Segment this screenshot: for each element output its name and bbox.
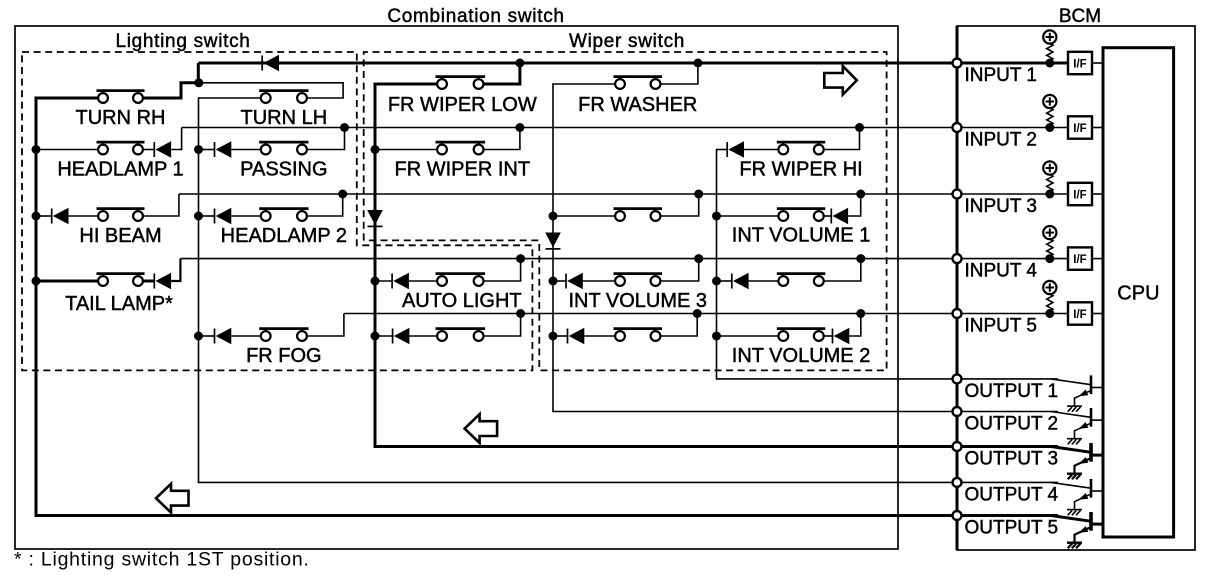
svg-text:I/F: I/F bbox=[1073, 123, 1086, 135]
svg-text:AUTO LIGHT: AUTO LIGHT bbox=[402, 290, 522, 312]
wire FR WASHER left to vertical V553 bbox=[553, 83, 615, 85]
node HI BEAM on left bus bbox=[32, 212, 41, 221]
svg-text:HI BEAM: HI BEAM bbox=[79, 225, 161, 247]
switch TAIL LAMP bbox=[97, 274, 145, 286]
node PASSING to INPUT 2 bbox=[340, 123, 349, 132]
switch HEADLAMP 1 bbox=[97, 142, 145, 154]
power pull-up for INPUT 5 bbox=[1043, 281, 1056, 311]
wire FR FOG row bbox=[199, 335, 215, 337]
diode down on V375 vertical bbox=[367, 210, 383, 226]
wire PASSING row bbox=[199, 149, 215, 151]
node FR WIPER INT to INPUT 2 bbox=[515, 123, 524, 132]
wire HEADLAMP 2 riser to INPUT 3 bbox=[307, 194, 343, 216]
node INT VOLUME 1 on V716 bbox=[712, 212, 721, 221]
wire vertical from FR WASHER down to OUTPUT 2 bbox=[552, 83, 554, 411]
diode row-9 M1 switch bbox=[393, 328, 410, 344]
svg-text:FR WIPER INT: FR WIPER INT bbox=[395, 159, 531, 181]
diode row-9 M2 switch bbox=[568, 328, 585, 344]
switch TURN RH bbox=[97, 91, 145, 103]
switch AUTO LIGHT bbox=[436, 274, 486, 286]
wire FR FOG riser to INPUT 5 bbox=[307, 314, 344, 337]
svg-text:OUTPUT 3: OUTPUT 3 bbox=[965, 449, 1059, 470]
I/F box for INPUT 2 bbox=[1068, 116, 1103, 138]
node TAIL LAMP on left bus bbox=[32, 277, 41, 286]
switch INT VOLUME 3 bbox=[614, 274, 663, 286]
wire HEADLAMP 2 row bbox=[199, 215, 215, 217]
svg-text:I/F: I/F bbox=[1073, 254, 1086, 266]
svg-text:CPU: CPU bbox=[1117, 283, 1159, 305]
wire INPUT 1 top bus (thick) bbox=[198, 62, 1068, 65]
node right row-7 switch on V716 bbox=[712, 277, 721, 286]
svg-text:I/F: I/F bbox=[1073, 59, 1086, 71]
transistor Q2 for OUTPUT 2 bbox=[1051, 408, 1103, 438]
flow arrow right on INPUT 1 bbox=[824, 66, 857, 95]
switch INT VOLUME 2 bbox=[777, 329, 826, 341]
connector OUTPUT 4 at BCM edge bbox=[953, 478, 962, 487]
wire FR WIPER INT row bbox=[375, 149, 437, 151]
connector OUTPUT 5 at BCM edge bbox=[953, 511, 962, 520]
node INT VOLUME 2 to INPUT 5 bbox=[856, 309, 865, 318]
wire INT VOLUME 1 riser to INPUT 3 bbox=[848, 194, 861, 216]
switch FR WIPER INT bbox=[436, 142, 486, 154]
transistor Q5 for OUTPUT 5 bbox=[1051, 512, 1103, 542]
switch PASSING bbox=[259, 142, 308, 154]
node row-9 M2 switch on V553 bbox=[549, 332, 558, 341]
Combination switch box bbox=[15, 26, 898, 549]
wire AUTO LIGHT riser to INPUT 4 bbox=[484, 259, 521, 281]
wire FR WIPER INT riser to INPUT 2 bbox=[484, 128, 520, 150]
Wiper switch dashed boundary bbox=[364, 52, 887, 370]
svg-text:PASSING: PASSING bbox=[240, 159, 327, 181]
wire FR WIPER HI left corner down V716 bbox=[717, 149, 728, 151]
transistor Q1 for OUTPUT 1 bbox=[1051, 375, 1103, 405]
svg-text:INPUT 4: INPUT 4 bbox=[965, 261, 1038, 282]
wire middle row-5 switch bbox=[553, 215, 615, 217]
svg-text:Combination switch: Combination switch bbox=[387, 6, 564, 27]
diode INT VOLUME 1 bbox=[831, 208, 848, 224]
connector OUTPUT 2 at BCM edge bbox=[953, 407, 962, 416]
wire left bus vertical (thick) bbox=[35, 97, 38, 516]
wire OUTPUT 4 line from node V198 bbox=[198, 481, 1058, 483]
wire TURN RH thick path bbox=[36, 97, 98, 100]
switch FR WASHER bbox=[614, 77, 663, 89]
svg-text:INPUT 1: INPUT 1 bbox=[965, 65, 1038, 86]
node AUTO LIGHT on V375 bbox=[371, 277, 380, 286]
wire INT VOLUME 1 row bbox=[717, 215, 779, 217]
wire vertical from TURN LH feeding PASSING/HEADLAMP2/FR FOG down to OUTPUT 4 bbox=[198, 97, 200, 482]
flow arrow left above OUTPUT 3 bbox=[465, 414, 498, 443]
power pull-up for INPUT 3 bbox=[1043, 161, 1056, 191]
wire TURN LH top link bbox=[199, 83, 343, 98]
power pull-up for INPUT 1 bbox=[1043, 30, 1056, 60]
CPU box U1 bbox=[1103, 48, 1174, 537]
diode on INPUT 1 bus bbox=[262, 55, 279, 71]
power pull-up for INPUT 2 bbox=[1043, 95, 1056, 125]
wire HI BEAM riser to INPUT 3 bbox=[143, 194, 179, 216]
node FR FOG on V198 bbox=[194, 332, 203, 341]
diode AUTO LIGHT bbox=[392, 273, 409, 289]
diode HEADLAMP 2 bbox=[215, 208, 232, 224]
node right row-7 switch to INPUT 4 bbox=[856, 254, 865, 263]
transistor Q4 for OUTPUT 4 bbox=[1051, 479, 1103, 509]
wire row-9 M1 switch row bbox=[375, 335, 393, 337]
diode HI BEAM bbox=[52, 208, 69, 224]
svg-text:Lighting switch: Lighting switch bbox=[115, 31, 250, 52]
wire TAIL LAMP riser to INPUT 4 (thick) bbox=[171, 259, 180, 281]
wire row-9 M2 riser to INPUT 5 bbox=[661, 314, 698, 337]
svg-text:INT VOLUME 3: INT VOLUME 3 bbox=[568, 290, 707, 312]
diode TAIL LAMP bbox=[154, 273, 171, 289]
svg-text:Wiper switch: Wiper switch bbox=[569, 31, 685, 52]
connector OUTPUT 1 at BCM edge bbox=[953, 374, 962, 383]
I/F box for INPUT 3 bbox=[1068, 183, 1103, 205]
svg-text:OUTPUT 4: OUTPUT 4 bbox=[965, 484, 1059, 505]
diode down on V553 vertical bbox=[545, 233, 561, 249]
node row-9 M2 switch to INPUT 5 bbox=[693, 309, 702, 318]
wire PASSING riser to INPUT 2 bbox=[307, 128, 344, 150]
wire FR WASHER right riser to INPUT 1 bbox=[661, 63, 698, 84]
node AUTO LIGHT to INPUT 4 bbox=[516, 254, 525, 263]
node INT VOLUME 3 on V553 bbox=[549, 277, 558, 286]
node INT VOLUME 2 on V716 bbox=[712, 332, 721, 341]
svg-text:I/F: I/F bbox=[1073, 190, 1086, 202]
wire HEADLAMP 1 row bbox=[36, 149, 98, 151]
diode INT VOLUME 2 bbox=[833, 328, 850, 344]
wire INT VOLUME 2 row bbox=[717, 335, 779, 337]
svg-text:OUTPUT 5: OUTPUT 5 bbox=[965, 518, 1059, 539]
wire OUTPUT 1 line from node V716 bbox=[716, 378, 1058, 380]
wire right row-7 switch row bbox=[717, 280, 732, 282]
svg-text:FR WIPER HI: FR WIPER HI bbox=[739, 159, 862, 181]
connector INPUT 5 at BCM edge bbox=[953, 309, 962, 318]
connector INPUT 2 at BCM edge bbox=[953, 123, 962, 132]
wire FR WIPER HI riser to INPUT 2 bbox=[824, 128, 860, 150]
wire middle row-5 switch riser to INPUT 3 bbox=[661, 194, 699, 216]
diode right row-7 switch bbox=[732, 273, 749, 289]
wire row-9 M1 riser to INPUT 5 bbox=[484, 314, 521, 337]
switch wiper volume (unlabeled, row 5) bbox=[614, 209, 663, 221]
svg-text:* : Lighting switch 1ST positi: * : Lighting switch 1ST position. bbox=[14, 549, 310, 571]
switch wiper volume (unlabeled, row 9) bbox=[614, 329, 663, 341]
node PASSING on V198 bbox=[194, 145, 203, 154]
svg-text:OUTPUT 1: OUTPUT 1 bbox=[965, 381, 1059, 402]
diode FR WIPER HI bbox=[727, 141, 744, 157]
node middle switch on V553 bbox=[549, 212, 558, 221]
wire TAIL LAMP row (thick) bbox=[36, 280, 98, 283]
svg-text:FR FOG: FR FOG bbox=[246, 345, 322, 367]
svg-text:BCM: BCM bbox=[1059, 6, 1101, 27]
diode PASSING bbox=[215, 141, 232, 157]
switch HEADLAMP 2 bbox=[259, 209, 308, 221]
Lighting switch dashed boundary bbox=[22, 52, 532, 370]
switch FR WIPER HI bbox=[777, 142, 826, 154]
svg-text:TAIL LAMP*: TAIL LAMP* bbox=[65, 293, 173, 315]
diode HEADLAMP 1 bbox=[154, 141, 171, 157]
wire right row-7 riser to INPUT 4 bbox=[824, 259, 861, 281]
wire INT VOLUME 3 riser to INPUT 4 bbox=[661, 259, 699, 281]
node INT VOLUME 3 to INPUT 4 bbox=[694, 254, 703, 263]
connector INPUT 1 at BCM edge bbox=[953, 59, 962, 68]
node HEADLAMP 2 on V198 bbox=[194, 212, 203, 221]
switch auto light (unlabeled, row 9) bbox=[436, 329, 486, 341]
wire OUTPUT 5 line (thick) from left bus bbox=[35, 514, 1059, 517]
wire INPUT 3 line bbox=[179, 193, 1068, 195]
svg-text:INPUT 3: INPUT 3 bbox=[965, 196, 1038, 217]
node FR WIPER HI to INPUT 2 bbox=[855, 123, 864, 132]
BCM connector edge (thick left side) bbox=[956, 26, 959, 550]
switch HI BEAM bbox=[97, 209, 145, 221]
svg-text:FR WIPER LOW: FR WIPER LOW bbox=[388, 94, 537, 116]
I/F box for INPUT 5 bbox=[1068, 302, 1103, 324]
transistor Q3 for OUTPUT 3 bbox=[1051, 443, 1103, 473]
svg-text:INPUT 5: INPUT 5 bbox=[965, 316, 1038, 337]
svg-text:I/F: I/F bbox=[1073, 309, 1086, 321]
node row-9 M1 switch to INPUT 5 bbox=[516, 309, 525, 318]
svg-text:TURN LH: TURN LH bbox=[241, 107, 328, 129]
wire OUTPUT 2 line from node V553 bbox=[552, 411, 1058, 413]
svg-text:TURN RH: TURN RH bbox=[76, 107, 166, 129]
wire row-9 M2 switch row bbox=[553, 335, 568, 337]
wire OUTPUT 3 line (thick) from node V375 bbox=[374, 445, 1059, 448]
node FR WIPER INT on V375 bbox=[371, 145, 380, 154]
node middle row-5 switch to INPUT 3 bbox=[694, 190, 703, 199]
wire INT VOLUME 2 riser to INPUT 5 bbox=[849, 314, 861, 337]
node TURN RH / TURN LH junction bbox=[194, 78, 203, 87]
BCM box bbox=[957, 26, 1195, 550]
switch INT VOLUME 1 bbox=[777, 209, 826, 221]
flow arrow left above OUTPUT 5 bbox=[156, 484, 189, 513]
wire vertical from FR WIPER HI down to OUTPUT 1 bbox=[716, 149, 718, 379]
wire INT VOLUME 3 row bbox=[553, 280, 566, 282]
node INT VOLUME 1 to INPUT 3 bbox=[856, 190, 865, 199]
I/F box for INPUT 1 bbox=[1068, 52, 1103, 74]
node row-9 M1 switch on V375 bbox=[371, 332, 380, 341]
wire HEADLAMP 1 riser to INPUT 2 bbox=[171, 128, 182, 150]
switch TURN LH bbox=[259, 91, 308, 103]
wire FR WIPER LOW left (thick) bbox=[375, 83, 437, 86]
wire HI BEAM row bbox=[36, 215, 52, 217]
connector OUTPUT 3 at BCM edge bbox=[953, 442, 962, 451]
wire AUTO LIGHT row bbox=[375, 280, 392, 282]
connector INPUT 3 at BCM edge bbox=[953, 190, 962, 199]
svg-text:HEADLAMP 1: HEADLAMP 1 bbox=[57, 159, 183, 181]
switch FR WIPER LOW bbox=[436, 77, 486, 89]
wire FR WIPER LOW right riser to INPUT 1 (thick) bbox=[484, 63, 520, 84]
wire INPUT 2 line bbox=[182, 127, 1068, 129]
switch wiper volume (unlabeled, row 7) bbox=[777, 274, 826, 286]
svg-text:HEADLAMP 2: HEADLAMP 2 bbox=[221, 225, 347, 247]
svg-text:FR WASHER: FR WASHER bbox=[578, 94, 697, 116]
node HEADLAMP 2 to INPUT 3 bbox=[338, 190, 347, 199]
wire INPUT 4 line bbox=[180, 258, 1068, 260]
wire INPUT 5 line bbox=[344, 313, 1068, 315]
wire riser to INPUT 1 (thick) bbox=[197, 63, 200, 83]
switch FR FOG bbox=[259, 329, 308, 341]
svg-text:INT VOLUME 1: INT VOLUME 1 bbox=[732, 225, 871, 247]
power pull-up for INPUT 4 bbox=[1043, 226, 1056, 256]
node FR WIPER LOW to INPUT 1 bbox=[515, 59, 524, 68]
wire thick vertical from FR WIPER LOW down to OUTPUT 3 bbox=[374, 83, 377, 447]
node HEADLAMP 1 on left bus bbox=[32, 145, 41, 154]
wire TURN LH left to vertical bbox=[199, 97, 261, 99]
diode FR FOG bbox=[215, 328, 232, 344]
I/F box for INPUT 4 bbox=[1068, 247, 1103, 269]
svg-text:OUTPUT 2: OUTPUT 2 bbox=[965, 414, 1059, 435]
diode INT VOLUME 3 bbox=[566, 273, 583, 289]
connector INPUT 4 at BCM edge bbox=[953, 254, 962, 263]
node FR WASHER to INPUT 1 bbox=[693, 59, 702, 68]
svg-text:INPUT 2: INPUT 2 bbox=[965, 130, 1038, 151]
svg-text:INT VOLUME 2: INT VOLUME 2 bbox=[732, 345, 871, 367]
